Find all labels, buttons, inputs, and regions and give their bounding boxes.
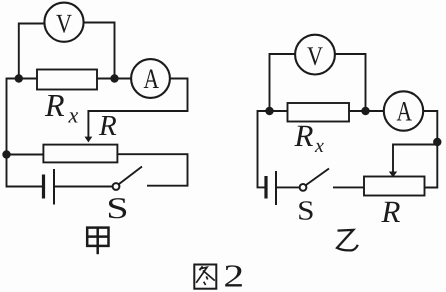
svg-text:x: x bbox=[314, 135, 324, 157]
svg-text:x: x bbox=[68, 103, 79, 128]
svg-text:2: 2 bbox=[223, 257, 244, 292]
svg-text:A: A bbox=[396, 97, 412, 128]
svg-text:V: V bbox=[307, 41, 323, 71]
svg-text:R: R bbox=[44, 87, 65, 123]
svg-text:R: R bbox=[294, 118, 314, 153]
svg-text:S: S bbox=[297, 195, 314, 226]
svg-text:R: R bbox=[98, 110, 117, 142]
svg-text:S: S bbox=[106, 192, 128, 225]
svg-text:R: R bbox=[381, 194, 401, 229]
svg-text:V: V bbox=[56, 9, 72, 39]
svg-text:A: A bbox=[144, 64, 160, 95]
